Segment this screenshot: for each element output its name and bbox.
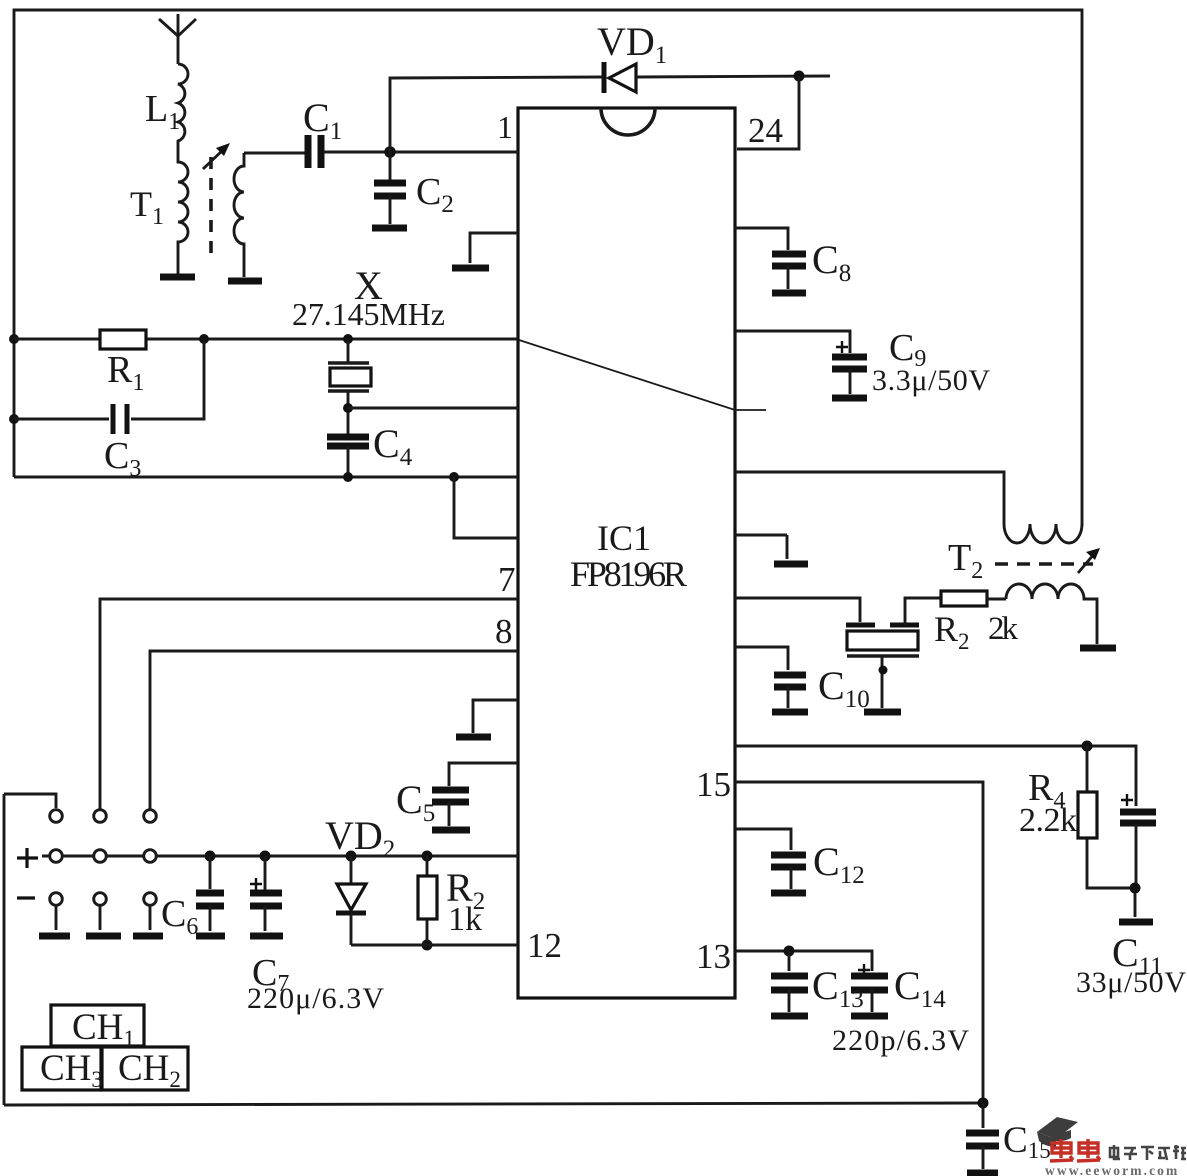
svg-text:15: 15 xyxy=(696,765,731,804)
svg-text:1: 1 xyxy=(497,109,513,145)
svg-text:8: 8 xyxy=(495,612,513,651)
svg-text:FP8196R: FP8196R xyxy=(570,554,687,594)
svg-text:13: 13 xyxy=(696,937,731,976)
svg-text:33μ/50V: 33μ/50V xyxy=(1076,966,1186,999)
svg-text:220p/6.3V: 220p/6.3V xyxy=(832,1024,969,1057)
svg-text:1k: 1k xyxy=(448,901,482,938)
svg-text:24: 24 xyxy=(748,111,783,150)
svg-text:2k: 2k xyxy=(988,611,1019,647)
svg-text:7: 7 xyxy=(498,560,516,599)
svg-text:3.3μ/50V: 3.3μ/50V xyxy=(872,364,990,397)
svg-text:www.eeworm.com: www.eeworm.com xyxy=(1045,1163,1179,1176)
svg-text:220μ/6.3V: 220μ/6.3V xyxy=(247,982,384,1015)
svg-text:IC1: IC1 xyxy=(597,518,651,558)
svg-text:12: 12 xyxy=(527,926,562,965)
svg-text:27.145MHz: 27.145MHz xyxy=(292,296,445,332)
svg-text:2.2k: 2.2k xyxy=(1019,802,1077,839)
